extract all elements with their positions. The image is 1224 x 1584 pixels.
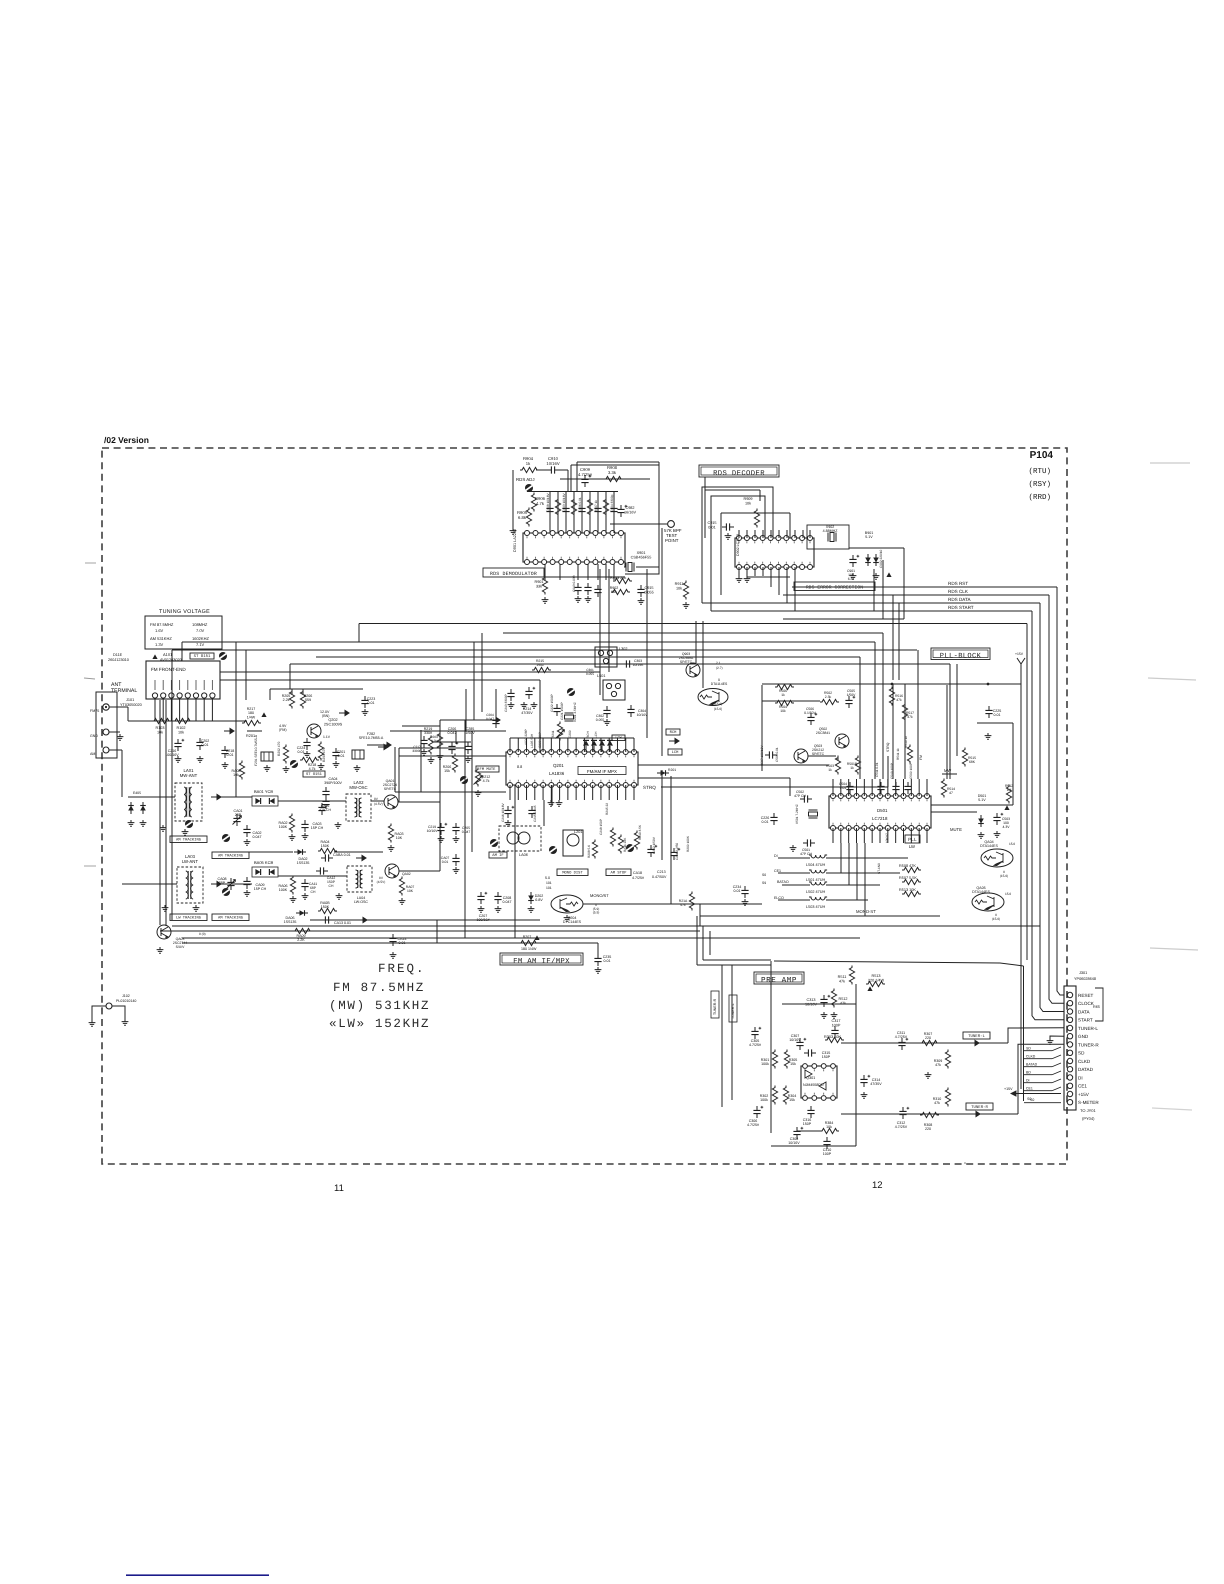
svg-text:2SC1009S: 2SC1009S [324,722,343,726]
svg-text:+15V: +15V [1015,652,1024,656]
label TUNER-L vert [729,995,737,1022]
wire pll top stub 1 [832,779,834,796]
ground ca03 [302,833,309,839]
svg-text:(15.0): (15.0) [1000,874,1008,878]
svg-text:S0: S0 [762,873,766,877]
svg-text:DATA: DATA [1078,1009,1091,1014]
capacitor C234 [741,886,748,898]
wire la bot stub 16 [633,785,635,800]
antenna +15v symbol [1017,658,1025,684]
resistor R207 [519,940,538,945]
wire pll riser 1 [859,657,861,779]
label LCH box [668,749,682,755]
capacitor CA14 [389,934,396,946]
svg-text:(RTU): (RTU) [1028,467,1051,476]
wire c235 drop [597,943,599,957]
wire pll bot stub 4 [856,828,858,843]
wire pll bot drop2 [848,843,850,885]
svg-text:R202 470: R202 470 [277,742,281,756]
signal arrow f282 [378,744,388,749]
pin J301 DI [1067,1075,1072,1080]
wire la bot long2 [551,785,553,806]
wire mid v440 [439,720,441,736]
pin label front-end 6 [195,680,197,690]
capacitor C915a [637,585,644,597]
resistor RA04 [318,848,337,853]
svg-text:(PY04): (PY04) [1082,1116,1095,1121]
wire pll riser 3 [882,633,884,779]
wire fe out long [220,671,600,673]
capacitor C510 [892,782,899,794]
ground c216b [505,820,512,826]
warning triangle R217 [261,712,266,717]
svg-text:47/35V: 47/35V [521,711,533,715]
svg-text:PLL-BLOCK: PLL-BLOCK [940,653,982,661]
svg-text:4.7k: 4.7k [483,779,490,783]
schematic dashed border [102,448,1067,1164]
ground C911 [575,596,582,602]
artifact tick left3 [84,865,96,867]
pin label front-end 8 [211,680,213,690]
svg-text:BATAD: BATAD [1026,1063,1038,1067]
pin J301 TUNER-R [1067,1042,1072,1047]
zener D901b [873,554,879,566]
svg-text:(FM): (FM) [279,728,287,732]
svg-text:RDS ERROR CORRECTION: RDS ERROR CORRECTION [806,585,863,591]
svg-text:TERMINAL: TERMINAL [111,688,137,694]
svg-text:(4.5V): (4.5V) [377,880,386,884]
wire pin drop 9 [613,492,615,533]
bracket R65 [1095,988,1103,1021]
capacitor C901 [849,555,859,567]
resistor R219 [428,736,433,755]
svg-text:15P CH: 15P CH [311,826,324,830]
svg-text:10k: 10k [178,730,184,734]
svg-text:DI: DI [1026,1079,1030,1083]
wire SD stub [1052,1047,1061,1051]
signal arrow la03 [211,881,221,886]
arrow +15v [1011,1091,1061,1096]
wire J301 feed 4 [1032,958,1064,1020]
svg-text:F201 SFE10.7M55-A: F201 SFE10.7M55-A [254,734,258,766]
capacitor C216b [504,806,514,818]
wire err nest B [711,496,765,611]
ground c313 [821,1012,828,1018]
svg-text:C904 3300p: C904 3300p [610,494,614,512]
svg-text:A022 228P: A022 228P [524,729,528,745]
wire bus A drop [358,624,360,643]
section label RDS ERROR CORRECTION [794,582,875,591]
wire pll rail2 [762,700,820,702]
pin J301 TUNER-L [1067,1025,1072,1030]
svg-text:C222 1500P: C222 1500P [550,694,554,712]
pin J301 DATAD [1067,1067,1072,1072]
svg-text:100K: 100K [279,888,288,892]
svg-text:3.3k: 3.3k [608,470,617,475]
ground c214b [531,702,538,708]
wire r206 top [302,689,304,694]
svg-text:FM75: FM75 [90,709,99,713]
svg-text:(15.0): (15.0) [992,917,1000,921]
svg-text:4.7k: 4.7k [536,501,545,506]
varactor BA01 a [255,798,260,804]
svg-text:1/50V: 1/50V [465,731,475,735]
wire tl feed [1008,1028,1064,1043]
label RCH box [666,729,680,735]
svg-text:RDS CLK: RDS CLK [948,589,969,594]
wire preamp vert 771 [770,961,772,1133]
wire am vert [121,750,123,762]
transistor Q502 [835,734,849,748]
wire RDS DATA [702,602,1040,604]
screw R218 [290,760,298,768]
wire preamp drop bus [1023,966,1025,1101]
ground c219 [438,836,445,842]
wire mid v496 [495,689,497,716]
wire pll bot stub 2 [840,828,842,843]
svg-text:R102: R102 [176,726,185,730]
capacitor row element 7 [594,504,601,516]
svg-text:260J123010: 260J123010 [108,658,129,662]
wire la bot long1 [543,800,545,826]
svg-text:47/35V: 47/35V [870,1082,882,1086]
wire pll top stub 2 [840,779,842,796]
svg-text:LW-ANT: LW-ANT [182,859,198,864]
svg-text:MONO-ST: MONO-ST [856,909,876,914]
artifact streak right4 [1152,1108,1192,1110]
wire bus right down3 [1012,723,1014,805]
wire mid vert 540 [539,680,541,752]
capacitor C507 [765,751,777,758]
wire fat arrow 3 [601,746,603,752]
svg-text:100P: 100P [823,1152,832,1156]
resistor R510 [907,745,912,764]
wire fe pin drop 1 [154,698,156,721]
wire preamp vert 856 [855,984,857,1146]
svg-text:559: 559 [305,698,311,702]
svg-text:AM: AM [90,752,95,756]
section label FM AM IF/MPX [500,953,583,966]
wire long row 2 [172,925,1040,927]
svg-text:100P: 100P [832,1023,841,1027]
wire err pin drop x747 [746,530,748,538]
capacitor row element 2 [555,498,560,517]
wire demod outer left [570,465,572,491]
wire ba05 out [278,875,347,877]
wire CLKD stub [1052,1055,1061,1059]
transformer LA03 LW-ANT [177,854,203,903]
transistor Q202 [307,724,321,738]
wire l502 line2 [826,884,880,886]
label AM STOP [606,869,631,876]
wire la bot stub 7 [559,785,561,800]
warning triangle R207 [534,935,539,940]
ground j102 a [89,1020,96,1026]
svg-text:CE1: CE1 [1078,1084,1087,1089]
resistor R21x [689,892,694,911]
capacitor CA04b [322,797,329,809]
wire tracking row1 [220,851,293,853]
label TUNER-R out [966,1103,993,1110]
wire r207 rail [437,942,598,944]
svg-text:4.7/25#: 4.7/25# [747,1123,759,1127]
wire c910 right [559,469,568,471]
wire mid ladder x465 [464,720,466,872]
zener D501a [978,815,984,827]
wire bus A [359,623,1027,625]
wire err pin drop x763 [762,530,764,538]
capacitor row element 5 [578,504,585,516]
ground J101 [117,734,124,740]
capacitor C509 [904,782,911,794]
wire pin drop 3 [565,492,567,533]
wire bus right down1 [1026,624,1028,961]
transistor QA01 [384,795,398,809]
wire err nest A [702,487,773,603]
svg-text:C511 0.01: C511 0.01 [875,762,879,777]
transistor QA03 [157,925,171,939]
wire mono-st long [700,915,940,917]
capacitor C307 [796,1038,806,1050]
section label PLL-BLOCK inner [933,650,988,658]
pin J101 GND [103,729,109,735]
capacitor CA12 [316,867,328,874]
svg-text:47k: 47k [896,698,902,702]
wire la top rail [510,737,634,739]
wire ladder x236 [235,660,237,797]
capacitor row element 9 [610,504,617,516]
resistor R512b [831,989,836,1008]
inductor L501 [809,870,827,873]
ground c235 [595,967,602,973]
ground la01b [182,829,189,835]
IC Q301 NJM4558DD [801,1064,837,1101]
svg-text:DTA144ES: DTA144ES [980,844,998,848]
wire err corr down4 [898,603,900,680]
capacitor C212 [647,845,657,857]
wire err frame top [849,547,904,549]
wire fe pin drop 3 [170,698,172,721]
pin J301 SD [1067,1050,1072,1055]
svg-text:R511: R511 [838,975,847,979]
wire STRQ out [661,786,888,788]
warning triangle r513 [867,986,872,991]
pin front-end 5 [185,693,190,698]
wire pll bot stub 13 [926,828,928,843]
svg-text:0.055: 0.055 [596,718,605,722]
svg-text:C509 100P: C509 100P [909,763,913,779]
ground c208 [495,906,502,912]
wire d902 rds stub1 [770,567,772,587]
wire err pin drop x755 [754,530,756,538]
ground c217 [421,749,428,755]
capacitor C315 [804,1049,816,1056]
wire below pin x545 [544,564,546,580]
resistor R516 [889,687,894,706]
svg-text:C218 150P: C218 150P [599,819,603,835]
svg-text:RDS START: RDS START [948,605,974,610]
wire fe pin drop 6 [195,698,197,721]
wire fe out long2 [220,679,540,681]
subcircuit X902 frame [807,525,849,549]
capacitor C304 [627,705,634,717]
filter F282 [352,750,364,759]
varicap CA08 [227,878,236,890]
wire la top stub 7 [559,738,561,752]
connector J101 box [96,692,117,758]
label MONO DIST [557,869,588,876]
svg-text:R215 22: R215 22 [605,803,609,815]
resistor R215 [610,828,615,847]
section label PLL-BLOCK [931,648,990,661]
resistor R506 [775,684,794,689]
pin front-end 6 [193,693,198,698]
svg-text:C902 220/10: C902 220/10 [879,550,883,568]
wire pin drop 7 [597,492,599,533]
wire la01 to ba01 [220,796,252,798]
svg-text:150K: 150K [321,844,330,848]
svg-text:15.0: 15.0 [1005,892,1011,896]
svg-text:0.47/50V: 0.47/50V [652,875,667,879]
svg-text:15k: 15k [444,769,450,773]
wire rds frame left [576,462,578,491]
svg-text:L501 47UH: L501 47UH [806,878,825,882]
pin J301 START [1067,1017,1072,1022]
pin label front-end 7 [203,680,205,690]
wire rds dec frame h [705,489,760,491]
wire r384 row [797,1130,820,1132]
ground c503 [994,831,1001,837]
wire tr feed [1018,1044,1064,1114]
diode DA02 [294,849,306,855]
svg-text:220 1/4W: 220 1/4W [868,978,885,982]
capacitor C285 [464,742,471,754]
svg-text:2.3k: 2.3k [825,695,832,699]
svg-text:GND: GND [1078,1034,1089,1039]
wire pll bot stub 5 [863,828,865,843]
warning triangle A101 [152,654,157,659]
wire pll right link [977,722,1013,724]
signal arrow caba [356,855,366,860]
wire fat arrow 2 [593,746,595,752]
resistor R304 [783,1086,788,1105]
capacitor C911 [574,583,581,595]
wire tuner-l line [841,1042,1008,1044]
svg-text:R303 10K: R303 10K [824,1035,841,1039]
svg-text:C915: C915 [644,586,653,590]
capacitor CABA [321,854,333,861]
ground err2 [744,576,751,582]
wire preamp feed h [703,959,771,961]
svg-text:YT03050020: YT03050020 [120,703,142,707]
wire err corr down3 [892,595,894,680]
wire la top stub 2 [517,738,519,752]
wire vert 474 [473,642,475,720]
svg-text:C221 1500P: C221 1500P [560,702,564,720]
svg-text:DTC144ES: DTC144ES [563,920,582,924]
wire la1836 to pll [638,764,829,766]
svg-text:C915: C915 [707,521,716,525]
pin J301 GND [1067,1034,1072,1039]
wire la top stub 10 [583,738,585,752]
resistor R204 [318,742,323,761]
junction dot pll rail b [987,683,990,686]
svg-text:MONO/ST: MONO/ST [590,893,609,898]
wire pll top stub 4 [856,779,858,796]
capacitor row element 8 [603,498,608,517]
svg-text:R204 470: R204 470 [322,748,326,762]
screw mid [626,844,634,852]
ground la03b [193,905,200,911]
ground ca02 [244,839,251,845]
wire ba01 out [278,800,346,802]
wire la top stub 6 [550,738,552,752]
svg-text:SFE10.7M55-A: SFE10.7M55-A [359,736,384,740]
svg-text:1.1V: 1.1V [323,735,331,739]
crystal X201 [565,713,574,721]
ground j102 b [122,1019,129,1025]
ground CA14 [390,952,397,958]
wire pll q into [808,755,836,757]
wire gnd stub [109,731,120,733]
section label PRE AMP inner [756,974,802,982]
wire err bottom rail2 [783,618,904,620]
svg-text:0.01: 0.01 [708,525,715,529]
crystal X902 [828,533,836,542]
svg-text:CE1: CE1 [1026,1087,1033,1091]
svg-text:108MHZ: 108MHZ [192,622,208,627]
svg-text:10/16V: 10/16V [546,461,559,466]
svg-text:YP06028648: YP06028648 [1074,977,1096,981]
wire la bot stub 1 [509,785,511,800]
svg-text:0.1/50V: 0.1/50V [804,711,816,715]
svg-text:R507 5.5K: R507 5.5K [899,876,917,880]
wire lw row [122,883,177,885]
svg-text:A101: A101 [163,652,173,657]
blue rule bottom [126,1574,269,1576]
wire la bot stub 13 [608,785,610,800]
wire RDS RST [792,586,1057,588]
capacitor C226 [770,813,777,825]
diode D301r [657,770,669,776]
svg-text:0.01: 0.01 [734,889,741,893]
ground C201 [333,761,340,767]
svg-text:TUNER-R: TUNER-R [971,1105,988,1110]
svg-text:BA01 YCB: BA01 YCB [254,789,273,794]
svg-text:C982: C982 [625,506,634,510]
resistor RA02 [289,814,294,833]
capacitor C506 [807,713,817,725]
wire vert x703b [702,621,704,688]
wire la left row2 [399,747,466,749]
ground ca07 [453,867,460,873]
wire preamp vert 732 [731,965,733,1100]
svg-text:100/16#: 100/16# [477,918,490,922]
wire rds rail top [527,491,618,493]
artifact streak right2 [1148,678,1196,680]
capacitor CA04a [322,787,329,799]
wire rds vert c [1039,603,1041,958]
wire pll bot stub 12 [918,828,920,843]
varactor BA05 b [269,869,274,875]
transistor Q903 [686,663,700,677]
svg-text:TUNER-R: TUNER-R [713,998,717,1015]
svg-text:(4.5V): (4.5V) [374,802,383,806]
svg-text:15k: 15k [789,1098,795,1102]
wire fe pin drop 4 [179,698,181,721]
wire err corr down2 [882,560,884,619]
wire vert 482 [481,633,483,712]
